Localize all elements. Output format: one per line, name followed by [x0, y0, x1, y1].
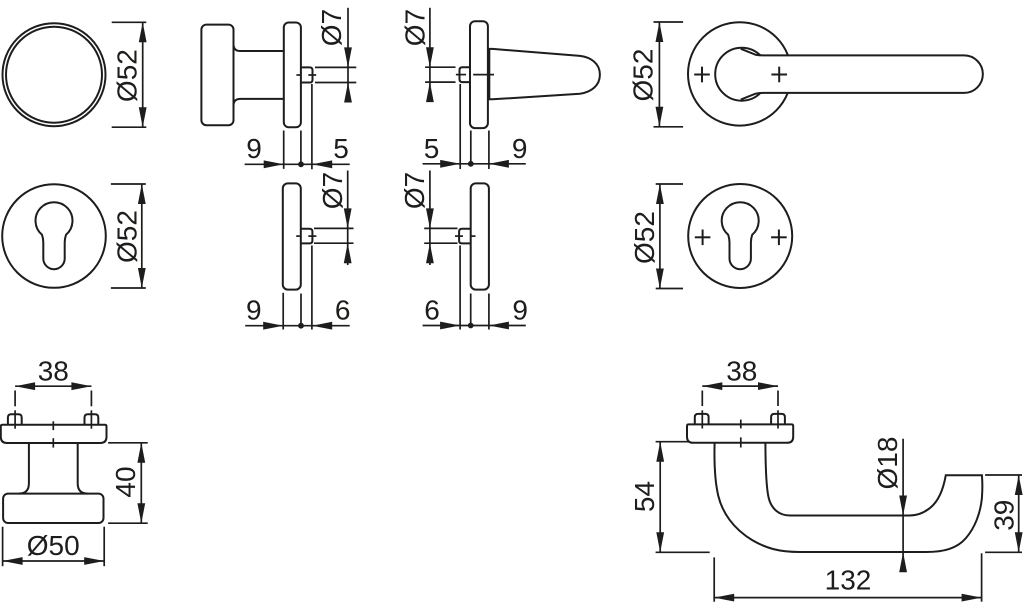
- lever front view: left screw mark: [694, 67, 710, 83]
- svg-text:Ø52: Ø52: [629, 211, 660, 264]
- lever side view: rose plate: [687, 424, 793, 442]
- dimension Ø7 (right rose side view): [399, 171, 457, 266]
- lever front view: right screw mark: [771, 67, 787, 83]
- lever side view: handle body: [714, 443, 982, 552]
- dimension Ø52 (right escutcheon): [629, 184, 683, 289]
- escutcheon front view (left): circle: [2, 184, 106, 288]
- escutcheon (left): euro profile keyhole: [36, 202, 73, 269]
- knob side view: rose: [284, 23, 301, 128]
- escutcheon (right): euro profile keyhole: [722, 202, 759, 269]
- knob front view: neck: [19, 443, 88, 494]
- svg-text:6: 6: [424, 295, 440, 326]
- rose side view (left): spindle stub: [301, 229, 313, 244]
- dimension 9 / 5 (knob side view): [245, 84, 350, 169]
- dimension 54 (lever): [629, 442, 710, 553]
- svg-text:Ø7: Ø7: [399, 9, 430, 46]
- svg-text:Ø7: Ø7: [399, 172, 430, 209]
- dimension Ø18 (lever grip): [872, 437, 907, 573]
- svg-text:39: 39: [988, 500, 1019, 531]
- svg-text:Ø52: Ø52: [628, 49, 659, 102]
- svg-text:5: 5: [424, 133, 440, 164]
- rose front view inner circle: [6, 27, 102, 123]
- svg-text:Ø7: Ø7: [317, 172, 348, 209]
- dimension 40 (knob): [108, 443, 148, 523]
- dimension 9 / 6 (left rose side view): [245, 246, 350, 330]
- escutcheon front view (right): circle: [688, 184, 792, 288]
- knob side view: head: [201, 25, 233, 126]
- dimension Ø7 (cone view): [399, 8, 455, 102]
- svg-text:9: 9: [512, 133, 528, 164]
- svg-text:9: 9: [512, 295, 528, 326]
- lever rose front view: rose circle: [688, 22, 791, 125]
- cone knob side view: spindle stub (left): [460, 67, 471, 82]
- svg-text:Ø52: Ø52: [111, 210, 142, 263]
- rose side view (right): stub centerline: [455, 235, 476, 237]
- lever side view: left screw: [695, 414, 709, 425]
- knob side view: neck shaft: [234, 44, 284, 105]
- escutcheon (right): left screw mark: [695, 230, 711, 246]
- knob front view: plate centerline ticks: [52, 421, 54, 447]
- dimension 39 (lever end): [985, 475, 1023, 552]
- svg-text:5: 5: [333, 133, 349, 164]
- dimension Ø52 (top-left rose): [112, 22, 147, 127]
- svg-text:38: 38: [726, 355, 757, 386]
- svg-text:Ø52: Ø52: [112, 49, 143, 102]
- svg-text:Ø50: Ø50: [27, 530, 80, 561]
- cone knob side view: rose: [470, 21, 488, 128]
- svg-text:40: 40: [110, 466, 141, 497]
- dimension Ø7 (left rose side view): [314, 171, 354, 266]
- svg-text:9: 9: [246, 295, 262, 326]
- lever front view: neck circle: [715, 48, 768, 101]
- rose side view (right): spindle stub: [459, 229, 471, 244]
- knob side view: spindle stub: [301, 67, 313, 82]
- knob front view: rose plate: [1, 425, 107, 443]
- dimension 132 (lever): [714, 553, 981, 601]
- rose side view (left): rose: [283, 183, 301, 289]
- svg-text:132: 132: [825, 564, 872, 595]
- dimension Ø52 (left escutcheon): [111, 184, 146, 288]
- lever side view: plate centerline ticks: [740, 420, 742, 448]
- escutcheon (right): right screw mark: [771, 230, 787, 246]
- svg-text:54: 54: [629, 481, 660, 512]
- dimension Ø7 (knob side view): [315, 8, 356, 103]
- rose front view (top-left) outer circle: [3, 23, 106, 126]
- dimension 6 / 9 (right rose side view): [423, 246, 528, 330]
- knob front view: grip head: [3, 494, 103, 523]
- rose side view (left): stub centerline: [296, 235, 316, 237]
- lever front view: grip bar: [741, 49, 983, 100]
- dimension Ø50 (knob): [3, 527, 105, 567]
- svg-text:6: 6: [335, 295, 351, 326]
- knob front view: left screw: [8, 414, 22, 425]
- dimension 38 (knob): [15, 355, 91, 428]
- dimension 5 / 9 (cone view): [423, 84, 528, 169]
- cone knob side view: conical grip: [489, 49, 600, 99]
- svg-text:9: 9: [246, 133, 262, 164]
- dimension Ø52 (lever rose): [628, 22, 684, 127]
- dimension 38 (lever): [702, 355, 778, 428]
- knob front view: right screw: [85, 414, 99, 425]
- knob side view: stub centerline: [296, 74, 316, 76]
- svg-text:Ø18: Ø18: [872, 437, 903, 490]
- lever side view: right screw: [771, 414, 785, 425]
- rose side view (right): rose: [471, 183, 489, 289]
- svg-text:38: 38: [38, 355, 69, 386]
- svg-text:Ø7: Ø7: [316, 9, 347, 46]
- cone knob side view: stub centerline: [456, 74, 494, 76]
